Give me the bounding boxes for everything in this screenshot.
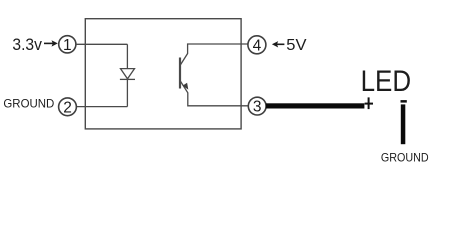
wire anode vertical xyxy=(126,44,128,69)
optocoupler U1 body xyxy=(85,19,241,129)
wire pin1 to LED anode xyxy=(76,43,128,45)
thick wire pin 3 to LED+ xyxy=(266,103,365,108)
thick wire LED- to ground xyxy=(401,104,406,144)
svg-text:1: 1 xyxy=(63,37,72,54)
Q1 collector wire to pin 4 xyxy=(180,44,248,66)
svg-text:4: 4 xyxy=(253,37,262,54)
pin 3 circle xyxy=(248,97,266,115)
svg-text:GROUND: GROUND xyxy=(381,150,429,164)
svg-text:5V: 5V xyxy=(286,37,307,54)
pin 2 circle xyxy=(59,98,77,116)
svg-text:3: 3 xyxy=(253,99,262,116)
LED negative terminal minus sign xyxy=(401,100,407,103)
Q1 emitter wire to pin 3 xyxy=(180,81,248,106)
wire cathode to pin 2 xyxy=(76,106,127,108)
svg-text:2: 2 xyxy=(63,99,72,116)
arrow into pin 1 xyxy=(44,40,58,46)
pin 1 circle xyxy=(59,36,76,53)
wire cathode vertical xyxy=(126,79,128,106)
pin 4 circle xyxy=(248,36,266,54)
arrow from 5V into pin 4 xyxy=(272,41,285,47)
LED D1 internal diode xyxy=(120,69,135,80)
Q1 emitter arrowhead xyxy=(183,83,189,90)
phototransistor Q1 base bar xyxy=(179,58,181,89)
svg-text:3.3v: 3.3v xyxy=(12,36,42,54)
LED positive terminal plus sign xyxy=(365,97,373,109)
svg-text:LED: LED xyxy=(361,65,412,98)
svg-text:GROUND: GROUND xyxy=(3,97,54,111)
